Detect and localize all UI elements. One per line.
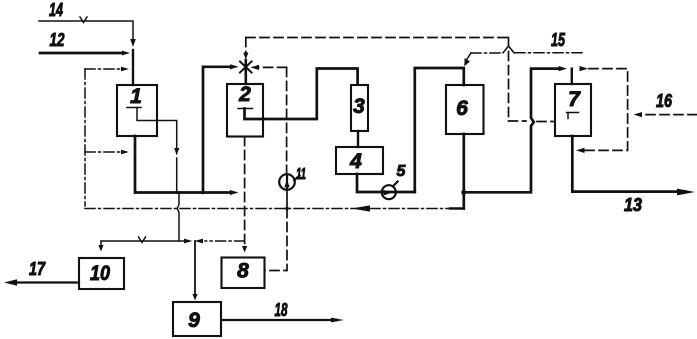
svg-text:3: 3 [353,95,365,118]
svg-text:6: 6 [456,97,468,120]
svg-text:15: 15 [551,30,566,50]
svg-text:12: 12 [50,30,65,50]
svg-text:17: 17 [29,259,46,279]
svg-text:1: 1 [130,85,142,108]
svg-text:9: 9 [188,309,200,332]
svg-text:11: 11 [296,166,306,183]
svg-text:10: 10 [90,262,110,285]
svg-text:8: 8 [237,260,249,283]
svg-text:18: 18 [275,300,288,320]
svg-text:2: 2 [238,83,251,106]
svg-text:4: 4 [349,150,362,173]
svg-text:13: 13 [624,195,642,215]
svg-text:5: 5 [397,163,407,180]
svg-text:16: 16 [656,91,673,111]
svg-text:14: 14 [49,0,63,20]
svg-text:7: 7 [568,88,581,111]
